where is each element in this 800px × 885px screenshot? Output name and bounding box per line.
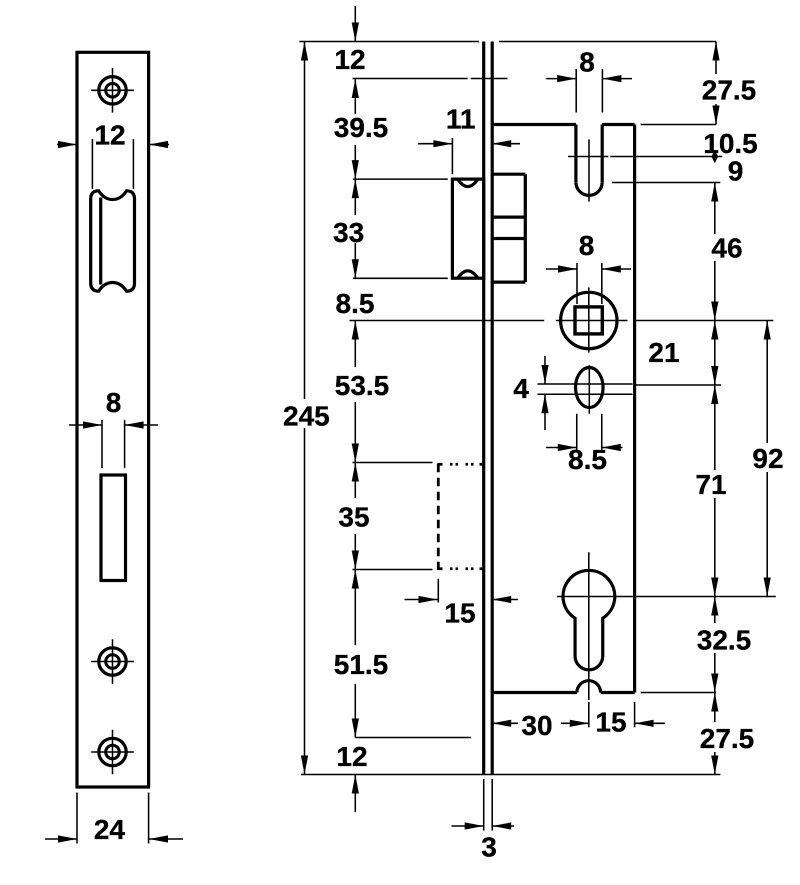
svg-text:24: 24 — [94, 814, 126, 845]
dimension 15 bottom — [589, 702, 665, 738]
extension case bottom right — [641, 692, 716, 694]
dimension 71 — [695, 385, 726, 597]
svg-text:30: 30 — [521, 710, 552, 741]
svg-text:27.5: 27.5 — [700, 723, 755, 754]
svg-text:92: 92 — [752, 443, 783, 474]
U slot crosshair — [568, 139, 608, 201]
dimension 12 (latch cutout width) — [57, 119, 169, 189]
dimension 39.5 — [334, 79, 389, 180]
svg-text:32.5: 32.5 — [697, 625, 752, 656]
svg-text:15: 15 — [595, 707, 626, 738]
oval centre lines — [538, 384, 722, 394]
dimension 24 (faceplate width) — [45, 793, 183, 845]
dimension 8 top notch — [546, 47, 632, 113]
screw hole top — [91, 68, 134, 113]
dimension 15 pocket — [405, 579, 519, 629]
svg-text:11: 11 — [446, 103, 476, 134]
svg-text:53.5: 53.5 — [335, 370, 390, 401]
bottom extension line (strip bottom level) — [301, 774, 720, 776]
svg-text:12: 12 — [94, 119, 125, 150]
dimension 46 — [711, 183, 742, 321]
euro cylinder hole — [563, 552, 615, 700]
screw hole middle — [91, 639, 134, 684]
dimension 4 — [513, 356, 548, 430]
dimension 92 — [752, 321, 783, 597]
top U slot — [576, 125, 602, 196]
svg-text:21: 21 — [648, 337, 679, 368]
svg-text:46: 46 — [711, 233, 742, 264]
dimension 8 (slot width) — [69, 387, 158, 468]
svg-text:10.5: 10.5 — [703, 128, 758, 159]
dimension 53.5 — [335, 321, 390, 463]
svg-text:33: 33 — [333, 217, 364, 248]
extension line pocket top — [353, 462, 433, 464]
dimension 8.5 label — [336, 288, 375, 319]
svg-text:27.5: 27.5 — [702, 75, 757, 106]
faceplate front view outline — [77, 52, 149, 787]
dimension 8 spindle — [546, 230, 631, 304]
dimension 30 — [492, 710, 589, 741]
dimension 245 — [283, 42, 330, 775]
svg-text:4: 4 — [513, 373, 529, 404]
dimension 12 bottom — [336, 741, 367, 812]
spindle hole — [561, 288, 617, 353]
rectangular slot on faceplate — [101, 475, 126, 581]
extension line pocket bottom — [353, 569, 433, 571]
dashed pocket — [438, 464, 483, 570]
svg-text:39.5: 39.5 — [334, 112, 389, 143]
down arrow above top line — [352, 6, 359, 42]
svg-text:12: 12 — [334, 44, 365, 75]
svg-text:3: 3 — [481, 832, 497, 863]
extension case top right — [641, 124, 716, 126]
dimension 35 — [338, 463, 369, 570]
dimension 12 top — [334, 44, 507, 79]
svg-text:9: 9 — [728, 156, 744, 187]
dimension 51.5 — [334, 570, 389, 738]
dimension 32.5 — [697, 597, 752, 693]
extension line latch top — [353, 178, 448, 180]
extension line latch bottom — [353, 277, 448, 279]
svg-text:8.5: 8.5 — [336, 288, 375, 319]
keyhole centre line — [557, 596, 776, 598]
dimension 8.5 oval — [546, 414, 623, 475]
latch bolt — [452, 179, 483, 278]
dimension 9 — [612, 156, 743, 187]
dimension 21 — [648, 321, 718, 386]
svg-text:8: 8 — [579, 47, 595, 78]
svg-text:35: 35 — [338, 501, 369, 532]
svg-text:71: 71 — [695, 469, 726, 500]
spring box behind latch — [492, 174, 525, 282]
latch cutout on faceplate — [91, 191, 135, 291]
dimension 27.5 bottom — [700, 693, 755, 775]
dimension 3 — [452, 779, 515, 863]
dimension 10.5 — [610, 128, 757, 163]
top extension line (strip top edge level) — [299, 41, 716, 43]
dimension 27.5 top — [702, 42, 757, 125]
extension line 51.5 bottom — [355, 737, 471, 739]
svg-text:12: 12 — [336, 741, 367, 772]
svg-text:51.5: 51.5 — [334, 649, 389, 680]
dimension 33 — [333, 179, 364, 278]
forend strip side view — [484, 42, 493, 775]
spindle centre line — [350, 320, 774, 322]
lock case outline — [494, 125, 635, 693]
screw hole bottom — [91, 730, 134, 775]
svg-text:8: 8 — [579, 230, 595, 261]
dimension 11 — [418, 103, 520, 174]
svg-text:15: 15 — [444, 598, 475, 629]
svg-text:8: 8 — [106, 387, 122, 418]
svg-text:245: 245 — [283, 401, 330, 432]
oval hole — [576, 365, 604, 414]
